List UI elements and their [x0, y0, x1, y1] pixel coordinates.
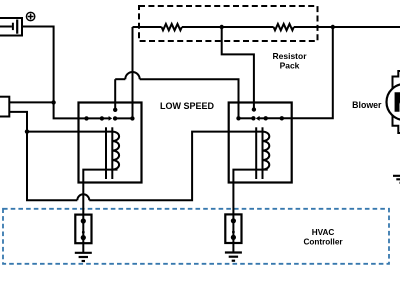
svg-text:Pack: Pack [280, 61, 300, 71]
svg-text:LOW SPEED: LOW SPEED [160, 101, 215, 111]
svg-text:Resistor: Resistor [272, 51, 307, 61]
svg-text:HVAC: HVAC [312, 228, 335, 237]
svg-text:Blower: Blower [352, 100, 382, 110]
svg-text:Controller: Controller [303, 238, 343, 247]
svg-text:M: M [394, 87, 400, 117]
